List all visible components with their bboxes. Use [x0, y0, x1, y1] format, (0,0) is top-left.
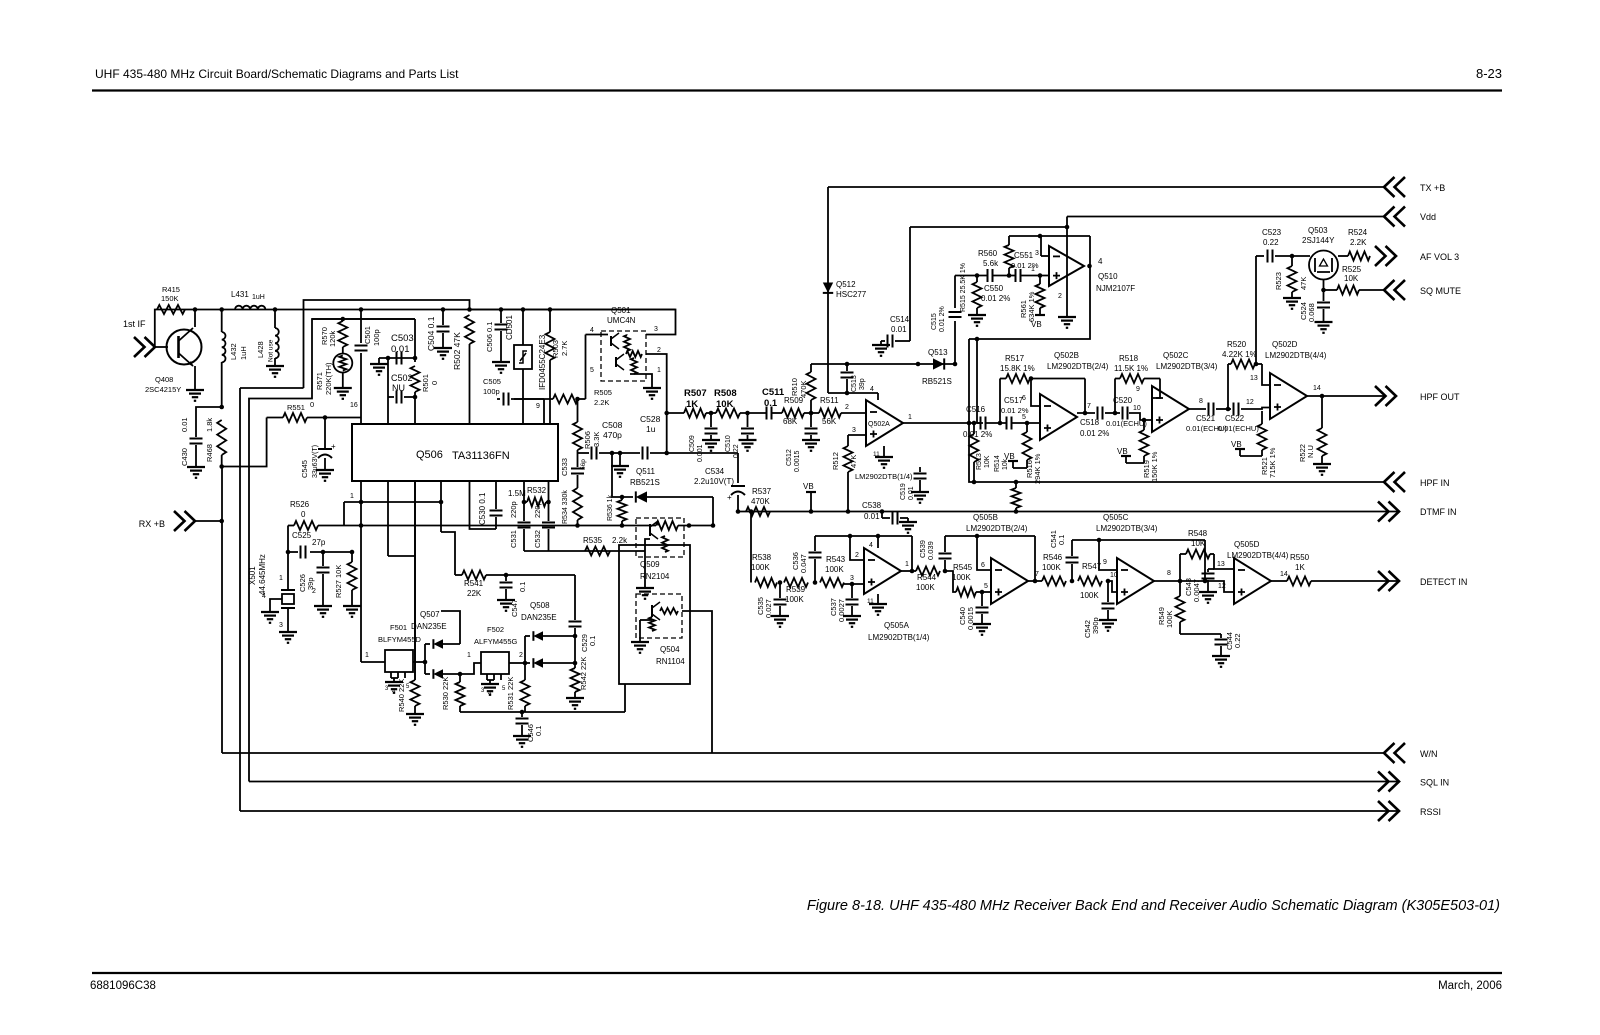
svg-text:HPF OUT: HPF OUT	[1420, 392, 1460, 402]
svg-text:0.039: 0.039	[926, 541, 935, 560]
node C534 bottom	[736, 509, 741, 514]
svg-text:1K: 1K	[686, 399, 698, 410]
port RSSI arrow	[1378, 801, 1399, 821]
svg-text:220p: 220p	[533, 501, 542, 518]
wire pin col 441 down	[440, 481, 442, 532]
svg-text:R550: R550	[1290, 553, 1310, 562]
node R522 top	[1320, 394, 1325, 399]
resistor R535	[585, 547, 610, 556]
wire Q502B out	[1077, 412, 1095, 414]
svg-text:LM2902DTB(3/4): LM2902DTB(3/4)	[1156, 362, 1218, 371]
ground Q504 emitter	[639, 620, 641, 642]
svg-text:C531: C531	[509, 530, 518, 548]
ground R542	[566, 697, 584, 699]
svg-text:R512: R512	[831, 452, 840, 470]
svg-text:R548: R548	[1188, 529, 1208, 538]
svg-text:R544: R544	[917, 573, 937, 582]
wire Q510 plus stub	[1048, 275, 1050, 277]
port TX +B arrow	[1384, 177, 1405, 197]
resistor R503	[549, 310, 551, 333]
svg-text:DAN235E: DAN235E	[521, 613, 557, 622]
svg-text:2.7K: 2.7K	[560, 341, 569, 356]
svg-text:0.0015: 0.0015	[966, 607, 975, 630]
node R520 left	[1226, 407, 1231, 412]
resistor R515	[976, 276, 978, 283]
svg-text:CD501: CD501	[505, 315, 514, 340]
node main line left	[664, 411, 669, 416]
ground C540	[973, 623, 991, 625]
svg-text:UMC4N: UMC4N	[607, 316, 636, 325]
wire Q510 out	[1087, 264, 1092, 269]
node L432 top	[219, 307, 224, 312]
svg-text:R527 10K: R527 10K	[334, 565, 343, 598]
svg-text:150K 1%: 150K 1%	[1150, 451, 1159, 482]
svg-text:C502: C502	[391, 373, 413, 383]
capacitor C550	[988, 269, 993, 282]
svg-text:3: 3	[279, 622, 283, 629]
capacitor C518	[1098, 407, 1103, 420]
resistor R551	[267, 417, 283, 419]
svg-text:RX +B: RX +B	[139, 519, 165, 529]
capacitor C539	[944, 536, 946, 552]
node C513 top	[845, 362, 850, 367]
resistor R547	[1078, 577, 1102, 586]
wire RSSI feed	[240, 387, 304, 389]
svg-text:12: 12	[1246, 399, 1254, 406]
capacitor C430	[190, 439, 203, 444]
ground C546	[513, 735, 531, 737]
wire W/N feed	[221, 467, 223, 754]
capacitor C506	[500, 310, 502, 324]
svg-text:39p: 39p	[859, 378, 866, 390]
svg-text:C516: C516	[966, 405, 986, 414]
ground C547	[497, 599, 515, 601]
resistor R544	[916, 567, 940, 576]
svg-text:Vdd: Vdd	[1420, 212, 1436, 222]
wire second top rail	[304, 300, 470, 388]
node C536 bottom	[813, 580, 818, 585]
resistor R570	[338, 321, 347, 347]
ground X501 pin3	[279, 631, 297, 633]
ground C544	[1212, 655, 1230, 657]
node R513 top	[972, 421, 977, 426]
svg-text:2.2K: 2.2K	[594, 398, 609, 407]
wire F501 out	[413, 661, 425, 663]
svg-text:Q505C: Q505C	[1103, 513, 1129, 522]
svg-text:LM2902DTB(2/4): LM2902DTB(2/4)	[966, 524, 1028, 533]
svg-text:C523: C523	[1262, 228, 1282, 237]
svg-text:Q513: Q513	[928, 348, 948, 357]
svg-text:0.01(ECHU): 0.01(ECHU)	[1218, 424, 1259, 433]
resistor R519	[1143, 420, 1145, 430]
wire C520 to plus	[1129, 413, 1152, 420]
svg-text:0.22: 0.22	[733, 444, 740, 458]
svg-text:NU: NU	[392, 383, 405, 393]
svg-text:LM2902DTB(1/4): LM2902DTB(1/4)	[868, 633, 930, 642]
transistor Q504 RN1104	[636, 594, 682, 638]
svg-text:C512: C512	[786, 449, 793, 466]
svg-text:R547: R547	[1082, 562, 1102, 571]
svg-text:LM2902DTB(1/4): LM2902DTB(1/4)	[855, 472, 913, 481]
svg-text:56K: 56K	[822, 417, 837, 426]
node R510 bottom	[809, 411, 814, 416]
svg-text:5: 5	[1022, 414, 1026, 421]
svg-text:R540 22K: R540 22K	[397, 679, 406, 712]
node loop HPFIN	[967, 421, 972, 426]
svg-text:150K: 150K	[161, 294, 179, 303]
wire pin col 388	[387, 358, 389, 424]
footer rule	[92, 972, 1502, 974]
svg-text:5: 5	[984, 583, 988, 590]
wire F502 out	[509, 662, 525, 664]
svg-text:33u63V(T): 33u63V(T)	[312, 445, 319, 478]
svg-text:47K: 47K	[1299, 277, 1308, 290]
wire Q511 row	[612, 453, 633, 497]
resistor R538	[755, 578, 777, 587]
svg-text:0.01: 0.01	[864, 512, 880, 521]
svg-text:2: 2	[845, 404, 849, 411]
capacitor C529	[569, 622, 582, 627]
wire Q505A pin4	[877, 536, 879, 548]
resistor R543	[820, 578, 844, 587]
svg-text:27p: 27p	[312, 538, 326, 547]
ground C519	[911, 491, 929, 493]
resistor R536	[620, 495, 625, 500]
svg-text:3: 3	[654, 326, 658, 333]
svg-text:7: 7	[1035, 571, 1039, 578]
capacitor C551	[1016, 269, 1021, 282]
wire Vdd branch	[910, 226, 1067, 228]
wire Q504 out	[682, 611, 712, 753]
svg-text:470p: 470p	[603, 430, 622, 440]
svg-text:R507: R507	[684, 388, 707, 399]
node C513 bottom	[845, 391, 850, 396]
svg-text:0.1: 0.1	[764, 398, 778, 409]
VB R519	[1121, 455, 1131, 457]
svg-text:3.3K: 3.3K	[592, 432, 601, 447]
svg-text:470K: 470K	[751, 497, 770, 506]
inductor L432	[222, 332, 226, 362]
capacitor C504	[442, 310, 444, 326]
svg-text:+: +	[727, 493, 732, 502]
wire C525 row	[288, 551, 298, 553]
svg-text:C503: C503	[391, 333, 414, 344]
capacitor C526	[321, 550, 326, 555]
svg-text:100K: 100K	[1165, 610, 1174, 628]
diode Q511	[636, 491, 647, 502]
wire R538 feed	[749, 509, 754, 514]
port AF VOL 3 arrow	[1375, 246, 1396, 266]
port RX +B arrow	[174, 511, 195, 531]
svg-text:R535: R535	[583, 536, 603, 545]
wire Q509 base	[637, 550, 645, 552]
resistor R512	[847, 435, 849, 446]
node pin col 361 dtmf	[359, 523, 364, 528]
svg-text:8: 8	[1199, 398, 1203, 405]
svg-text:C545: C545	[300, 460, 309, 478]
svg-text:2SC4215Y: 2SC4215Y	[145, 385, 181, 394]
capacitor C509	[710, 413, 712, 427]
resistor R508	[716, 409, 740, 418]
node R570 top	[341, 317, 346, 322]
svg-text:Q510: Q510	[1098, 272, 1118, 281]
svg-text:14: 14	[1280, 571, 1288, 578]
svg-text:1st IF: 1st IF	[123, 319, 146, 329]
ground Q502A pin11	[883, 446, 885, 457]
svg-text:0.047: 0.047	[799, 554, 808, 573]
capacitor C528	[643, 447, 648, 460]
wire Q510 feedback top	[1009, 235, 1090, 237]
wire R541 feed	[441, 532, 455, 575]
ground C543	[1199, 591, 1217, 593]
svg-text:R502 47K: R502 47K	[452, 332, 462, 370]
svg-text:R539: R539	[786, 585, 806, 594]
resistor R505	[514, 398, 553, 400]
svg-text:C533: C533	[560, 458, 569, 476]
svg-text:SQ MUTE: SQ MUTE	[1420, 286, 1461, 296]
svg-text:9: 9	[536, 403, 540, 410]
wire Q501 pin1 ground	[630, 374, 652, 388]
ground R571	[334, 387, 352, 389]
ground R523	[1283, 297, 1301, 299]
svg-text:VB: VB	[1231, 440, 1242, 449]
svg-text:W/N: W/N	[1420, 749, 1438, 759]
svg-text:470K: 470K	[799, 380, 808, 398]
svg-text:R506: R506	[583, 431, 592, 449]
node R523 top	[1290, 254, 1295, 259]
svg-text:RB521S: RB521S	[922, 377, 952, 386]
resistor R502	[465, 315, 474, 344]
transistor pair Q501 UMC4N	[601, 331, 646, 381]
node Q513 left	[916, 362, 921, 367]
svg-text:X501: X501	[248, 566, 257, 585]
svg-text:1: 1	[657, 367, 661, 374]
wire R517 loop	[999, 379, 1001, 424]
svg-text:DETECT IN: DETECT IN	[1420, 577, 1467, 587]
svg-text:12: 12	[1218, 583, 1226, 590]
ground Q408 emitter	[194, 366, 196, 390]
svg-text:0.1: 0.1	[534, 726, 543, 736]
resistor R534	[573, 488, 582, 520]
op-amp Q502A	[866, 400, 903, 446]
svg-text:R536 1k: R536 1k	[607, 494, 614, 521]
wire C523 column	[1255, 256, 1257, 364]
svg-text:47K: 47K	[849, 455, 858, 468]
resistor R539	[784, 578, 808, 587]
svg-text:R525: R525	[1342, 265, 1362, 274]
port 1st IF arrow	[134, 337, 155, 357]
svg-text:C532: C532	[533, 530, 542, 548]
svg-text:SQL IN: SQL IN	[1420, 778, 1449, 788]
ground Q501	[643, 387, 661, 389]
svg-text:4.22K 1%: 4.22K 1%	[1222, 350, 1257, 359]
wire R548 loop	[1179, 554, 1181, 581]
capacitor C525	[301, 546, 306, 559]
wire Q510 minus	[1041, 255, 1049, 257]
resistor R542	[574, 663, 576, 668]
wire F501 in	[361, 661, 385, 663]
svg-text:C514: C514	[890, 315, 910, 324]
svg-text:2.2K: 2.2K	[1350, 238, 1367, 247]
svg-text:4: 4	[869, 542, 873, 549]
svg-text:R415: R415	[162, 285, 180, 294]
ground R540	[406, 713, 424, 715]
node C529 bottom	[573, 634, 578, 639]
wire W/N net	[222, 752, 1384, 754]
svg-text:VB: VB	[1117, 447, 1128, 456]
svg-text:R542 22K: R542 22K	[579, 657, 588, 690]
svg-text:1uH: 1uH	[252, 294, 265, 301]
ground C503 left	[378, 358, 380, 364]
wire C531 rail	[524, 550, 637, 552]
svg-text:0.01 2%: 0.01 2%	[939, 306, 946, 332]
capacitor C516	[981, 417, 986, 430]
port W/N arrow	[1384, 743, 1405, 763]
wire R518 loop	[1114, 379, 1116, 414]
node Q508 out	[573, 661, 578, 666]
wire Q505A feedback	[815, 535, 912, 537]
wire R520 loop	[1227, 364, 1229, 409]
svg-text:0.01 2%: 0.01 2%	[963, 430, 992, 439]
svg-text:RN1104: RN1104	[656, 657, 685, 666]
svg-text:R524: R524	[1348, 228, 1368, 237]
resistor R507	[684, 409, 706, 418]
port SQL IN arrow	[1378, 772, 1399, 792]
wire Q505B feedback	[945, 535, 1035, 537]
resistor R560	[1008, 236, 1010, 245]
svg-text:2: 2	[519, 652, 523, 659]
ground C524	[1315, 321, 1333, 323]
svg-text:120k: 120k	[328, 330, 337, 347]
wire Q501 pin4	[586, 334, 609, 336]
svg-text:F502: F502	[487, 625, 504, 634]
wire Q505C plus	[1108, 581, 1117, 592]
wire 1st IF base	[155, 346, 168, 348]
svg-text:0.22: 0.22	[1263, 238, 1279, 247]
svg-text:715K 1%: 715K 1%	[1268, 447, 1277, 478]
capacitor C521	[1209, 403, 1214, 416]
ground F501 pins	[390, 672, 392, 678]
wire Q505A out	[901, 570, 916, 572]
svg-text:DTMF IN: DTMF IN	[1420, 507, 1457, 517]
svg-text:R514: R514	[994, 455, 1001, 472]
resistor R541	[462, 571, 486, 580]
svg-text:R531 22K: R531 22K	[506, 677, 515, 710]
resistor R527	[351, 552, 353, 562]
op-amp Q510	[1049, 246, 1084, 286]
node CD501 top	[521, 307, 526, 312]
svg-text:NJM2107F: NJM2107F	[1096, 284, 1135, 293]
svg-text:Q511: Q511	[636, 467, 656, 476]
wire main mid	[667, 412, 684, 414]
ground F502 pins	[486, 674, 488, 680]
svg-text:0: 0	[301, 510, 306, 519]
node R518 left	[1113, 411, 1118, 416]
capacitor C522	[1234, 403, 1239, 416]
wire C528 to C534	[650, 452, 738, 454]
svg-text:10K: 10K	[1344, 274, 1359, 283]
resistor R509	[782, 409, 804, 418]
capacitor C546	[520, 710, 525, 715]
wire R570 rail	[312, 318, 415, 320]
transistor Q503 2SJ144Y	[1309, 251, 1338, 280]
svg-text:2.2u10V(T): 2.2u10V(T)	[694, 477, 734, 486]
ground C510	[739, 439, 757, 441]
svg-text:1: 1	[905, 561, 909, 568]
resistor R530	[459, 674, 461, 682]
wire HPF IN net	[969, 339, 1384, 482]
resistor R520	[1231, 360, 1255, 369]
svg-text:C506 0.1: C506 0.1	[485, 322, 494, 352]
svg-text:R508: R508	[714, 388, 737, 399]
svg-text:2: 2	[657, 347, 661, 354]
wire pin col 388 down	[387, 481, 389, 556]
svg-text:1: 1	[467, 652, 471, 659]
svg-text:220K(TH): 220K(TH)	[324, 362, 333, 395]
svg-text:C517: C517	[1004, 396, 1024, 405]
svg-text:LM2902DTB(2/4): LM2902DTB(2/4)	[1047, 362, 1109, 371]
svg-text:3: 3	[1035, 250, 1039, 257]
port HPF IN arrow	[1384, 472, 1405, 492]
capacitor C511	[767, 407, 772, 420]
wire Q502A out	[903, 422, 983, 424]
wire R515 riser	[954, 276, 956, 309]
svg-text:100K: 100K	[785, 595, 804, 604]
svg-text:R534 330k: R534 330k	[562, 490, 569, 524]
wire Q505A plus	[844, 583, 864, 585]
capacitor C501	[360, 310, 362, 344]
thermistor R571	[333, 354, 352, 373]
capacitor C505	[497, 398, 500, 400]
svg-text:C430: C430	[180, 448, 189, 466]
node R560 bottom	[1007, 273, 1012, 278]
capacitor C538	[880, 509, 885, 514]
svg-text:TA31136FN: TA31136FN	[452, 450, 510, 462]
wire C508 row	[578, 452, 590, 454]
svg-text:C551: C551	[1014, 251, 1034, 260]
resistor R545	[956, 588, 976, 597]
svg-text:L432: L432	[229, 343, 238, 360]
svg-text:2SJ144Y: 2SJ144Y	[1302, 236, 1335, 245]
svg-text:AF VOL 3: AF VOL 3	[1420, 252, 1459, 262]
wire pin col 361	[360, 481, 362, 662]
svg-text:RB521S: RB521S	[630, 478, 660, 487]
resistor R550	[1287, 577, 1311, 586]
resistor R517	[1006, 374, 1030, 383]
ground C526	[314, 605, 332, 607]
svg-text:1uH: 1uH	[239, 346, 248, 360]
wire Q505B input	[945, 571, 956, 592]
node C541 bottom	[1070, 579, 1075, 584]
wire Q510 loop	[969, 236, 1090, 339]
capacitor C523	[1268, 250, 1273, 263]
svg-text:11.5K 1%: 11.5K 1%	[1114, 364, 1148, 373]
svg-text:0.0015: 0.0015	[794, 450, 801, 472]
svg-text:C547: C547	[510, 599, 519, 617]
resistor R468	[217, 420, 226, 455]
resistor R522	[1321, 396, 1323, 428]
wire pin4 Q502A	[877, 393, 879, 400]
node C506 rail	[499, 307, 504, 312]
svg-text:L428: L428	[256, 341, 265, 358]
svg-text:DAN235E: DAN235E	[411, 622, 447, 631]
svg-text:C501: C501	[363, 326, 372, 344]
svg-text:0.01: 0.01	[908, 486, 915, 500]
wire Q505D out	[1271, 580, 1287, 582]
port DETECT IN arrow	[1378, 571, 1399, 591]
svg-text:C550: C550	[984, 284, 1004, 293]
svg-text:4: 4	[1098, 257, 1103, 266]
